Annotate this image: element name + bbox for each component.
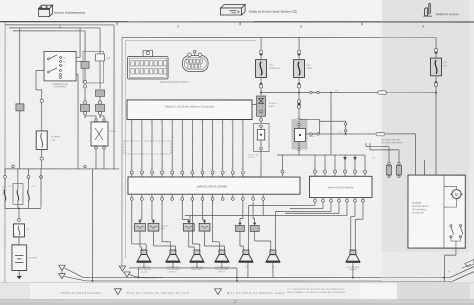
- svg-text:(selon modèle), consulter le s: (selon modèle), consulter le schéma du c…: [287, 291, 346, 294]
- svg-text:TAIL: TAIL: [443, 64, 447, 67]
- svg-text:(*) : La borne de raccord peut: (*) : La borne de raccord peut etre racc…: [287, 288, 345, 291]
- svg-text:AVANT G.: AVANT G.: [169, 270, 177, 273]
- svg-text:ET MOTEUR: ET MOTEUR: [412, 211, 424, 214]
- svg-text:150: 150: [335, 89, 338, 92]
- svg-text:(AMPLIFICATEUR STEREO): (AMPLIFICATEUR STEREO): [160, 81, 189, 84]
- svg-text:Mise au centre du plancher ava: Mise au centre du plancher avant: [227, 292, 285, 295]
- svg-text:RADIO ET LECTEUR LASER (LECTEU: RADIO ET LECTEUR LASER (LECTEUR CD): [165, 105, 214, 108]
- svg-text:COMMUTATEUR: COMMUTATEUR: [52, 83, 68, 86]
- svg-text:VOITURE RELAIS: VOITURE RELAIS: [412, 205, 429, 208]
- svg-text:2: 2: [234, 300, 236, 304]
- svg-text:3: 3: [300, 25, 302, 29]
- svg-text:L’ANTENNE MOTORISEE: L’ANTENNE MOTORISEE: [381, 141, 404, 144]
- svg-text:DE CONTROLE: DE CONTROLE: [412, 208, 427, 211]
- svg-text:AM1: AM1: [63, 56, 67, 59]
- svg-text:M: M: [455, 193, 458, 197]
- svg-text:DOME: DOME: [307, 67, 313, 70]
- svg-text:ARRIERE: ARRIERE: [349, 268, 357, 271]
- svg-text:Points de mise à la masse: Points de mise à la masse: [61, 292, 101, 295]
- svg-text:RELAIS: RELAIS: [110, 130, 117, 133]
- svg-text:(coaxial): (coaxial): [141, 270, 148, 273]
- svg-text:Mise au centre du tableau de b: Mise au centre du tableau de bord: [126, 292, 189, 295]
- svg-text:Radio et lecteur laser (lentes: Radio et lecteur laser (lentes CD): [249, 10, 298, 14]
- svg-text:4: 4: [422, 25, 424, 29]
- svg-text:2: 2: [177, 24, 179, 28]
- svg-text:AVANT DROIT: AVANT DROIT: [191, 268, 202, 271]
- svg-text:BRUIT: BRUIT: [269, 105, 275, 108]
- svg-text:Source d’alimentation: Source d’alimentation: [54, 11, 86, 15]
- svg-text:(*1) VERS CABLE DE: (*1) VERS CABLE DE: [381, 138, 400, 141]
- svg-text:(*1): (*1): [372, 156, 375, 159]
- svg-text:RADIO: RADIO: [309, 135, 315, 138]
- svg-text:ANTENNE: ANTENNE: [412, 202, 422, 205]
- svg-text:AM2: AM2: [106, 57, 110, 60]
- svg-text:AVANT D.: AVANT D.: [218, 270, 226, 273]
- svg-text:151: 151: [338, 131, 341, 134]
- svg-text:BATTERY: BATTERY: [28, 256, 37, 259]
- svg-text:FL MAIN: FL MAIN: [51, 135, 60, 138]
- svg-text:RADIO No.2: RADIO No.2: [270, 67, 281, 70]
- svg-text:AMPLIFICATEUR ARRIERE: AMPLIFICATEUR ARRIERE: [328, 186, 355, 189]
- svg-text:AVANT: AVANT: [160, 227, 165, 230]
- svg-text:D’ALLUMAGE: D’ALLUMAGE: [54, 85, 67, 88]
- svg-text:AMPLIFICATEUR STEREO: AMPLIFICATEUR STEREO: [197, 185, 228, 188]
- svg-text:5: 5: [322, 124, 323, 127]
- svg-text:FILTRE A: FILTRE A: [269, 102, 277, 105]
- svg-text:Antenne voiture: Antenne voiture: [436, 12, 459, 16]
